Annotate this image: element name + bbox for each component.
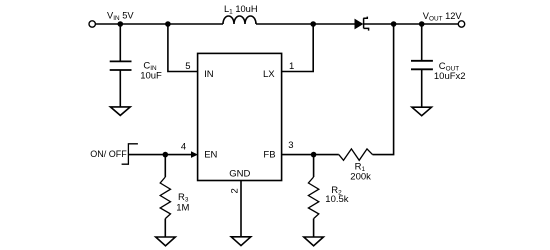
- wire VIN rail: [96, 23, 223, 25]
- diode D1: [355, 17, 369, 31]
- wire COUT drop: [421, 24, 423, 61]
- wire IN pin drop: [168, 24, 198, 72]
- terminal VOUT: [458, 21, 464, 27]
- node VIN/CIN junction: [118, 21, 124, 27]
- IC U1: [198, 53, 282, 180]
- svg-text:10uF: 10uF: [140, 70, 162, 81]
- node EN/R3 junction: [163, 152, 169, 158]
- svg-text:ON/ OFF: ON/ OFF: [90, 149, 127, 159]
- svg-text:10uFx2: 10uFx2: [434, 71, 466, 82]
- node diode/R1 junction: [391, 21, 397, 27]
- ground R2: [304, 237, 324, 246]
- svg-text:VIN 5V: VIN 5V: [107, 10, 134, 22]
- svg-text:EN: EN: [204, 150, 217, 161]
- node IN drop junction: [165, 21, 171, 27]
- wire R3 to ground: [164, 219, 166, 237]
- capacitor COUT: [411, 61, 433, 70]
- wire R2 to ground: [313, 219, 315, 237]
- wire R1 to output: [373, 24, 394, 155]
- node FB junction: [311, 152, 317, 158]
- svg-text:5: 5: [185, 61, 190, 72]
- ground CIN: [110, 107, 130, 116]
- resistor R2: [308, 177, 318, 219]
- wire EN: [128, 154, 191, 156]
- wire diode to VOUT: [364, 23, 459, 25]
- wire CIN drop: [119, 24, 121, 61]
- ground GND pin: [231, 237, 251, 246]
- wire R3 top: [164, 155, 166, 177]
- svg-text:200k: 200k: [350, 172, 371, 183]
- wire FB stub: [282, 154, 339, 156]
- svg-text:GND: GND: [229, 168, 250, 179]
- svg-text:VOUT 12V: VOUT 12V: [423, 11, 463, 23]
- wire LX stub: [282, 24, 314, 72]
- ground R3: [156, 237, 176, 246]
- wire CIN to ground: [119, 70, 121, 107]
- svg-text:1M: 1M: [176, 203, 189, 214]
- svg-text:4: 4: [181, 142, 186, 153]
- wire COUT to ground: [421, 69, 423, 107]
- node LX junction: [310, 21, 316, 27]
- wire GND pin: [240, 181, 242, 237]
- wire L1 to diode: [256, 23, 355, 25]
- svg-text:FB: FB: [263, 150, 275, 161]
- svg-text:1: 1: [289, 61, 294, 72]
- EN arrowhead: [191, 151, 198, 158]
- svg-text:10.5k: 10.5k: [325, 194, 348, 205]
- svg-text:2: 2: [229, 188, 240, 193]
- svg-text:L1 10uH: L1 10uH: [224, 4, 258, 16]
- ground COUT: [412, 107, 432, 116]
- inductor L1: [223, 16, 256, 24]
- svg-text:3: 3: [288, 140, 293, 151]
- on/off step symbol: [122, 144, 138, 164]
- resistor R3: [160, 177, 170, 219]
- capacitor CIN: [110, 61, 132, 70]
- label pin 2: [229, 188, 240, 193]
- resistor R1: [339, 149, 373, 160]
- wire R2 top: [313, 155, 315, 177]
- node COUT junction: [419, 21, 425, 27]
- terminal VIN: [89, 21, 95, 27]
- svg-text:LX: LX: [263, 69, 275, 80]
- svg-text:IN: IN: [204, 69, 214, 80]
